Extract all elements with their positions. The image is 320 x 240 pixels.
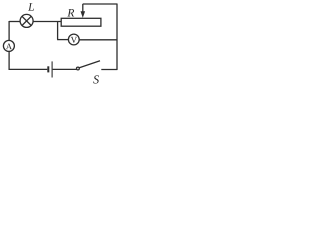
- wire junction drop to voltmeter: [57, 22, 59, 40]
- wire voltmeter right: [79, 39, 117, 41]
- wire slider to right side: [83, 3, 117, 5]
- svg-text:S: S: [93, 72, 99, 86]
- wire lamp to rheostat: [33, 21, 61, 23]
- ammeter A: [3, 40, 14, 51]
- svg-text:A: A: [6, 41, 13, 51]
- svg-text:L: L: [27, 2, 34, 14]
- wire top-left horizontal: [9, 21, 20, 23]
- switch S blade: [79, 61, 100, 68]
- resistor R (rheostat box): [61, 18, 101, 26]
- rheostat slider arrow: [81, 4, 86, 18]
- wire bottom left to battery: [9, 68, 48, 70]
- battery: [48, 61, 52, 77]
- wire switch to right corner: [101, 69, 117, 71]
- switch S pivot: [77, 67, 80, 70]
- voltmeter V: [68, 34, 79, 45]
- wire left vertical upper: [8, 21, 10, 41]
- lamp L: [20, 14, 33, 27]
- wire right vertical: [116, 4, 118, 70]
- svg-text:V: V: [71, 35, 78, 45]
- wire voltmeter left: [57, 39, 68, 41]
- wire left vertical lower: [8, 51, 10, 70]
- svg-text:R: R: [66, 7, 74, 19]
- wire battery to switch: [53, 68, 77, 70]
